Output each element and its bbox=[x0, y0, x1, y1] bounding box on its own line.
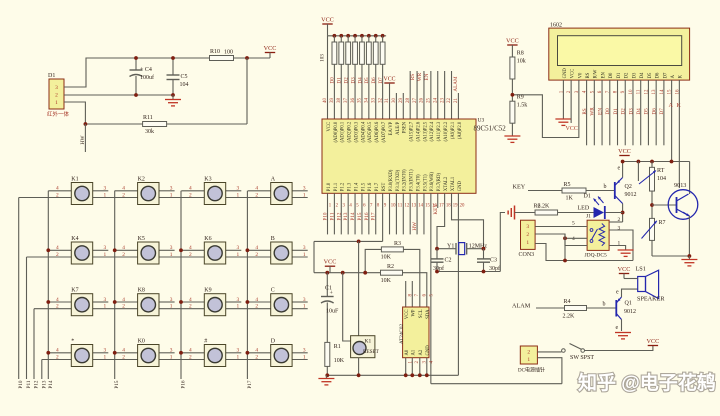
wire U2 pin 4 bbox=[426, 358, 428, 376]
svg-text:(A15)P2.7: (A15)P2.7 bbox=[410, 121, 415, 141]
wire D1 pin1 to R11 and HW bbox=[64, 102, 143, 124]
svg-text:R9: R9 bbox=[517, 95, 524, 101]
svg-text:VCC: VCC bbox=[324, 259, 337, 266]
svg-text:14: 14 bbox=[418, 204, 423, 209]
svg-text:3: 3 bbox=[618, 226, 621, 232]
wire R5 to Q2 base bbox=[586, 190, 615, 192]
wire Q2 emitter to VCC rail bbox=[622, 162, 624, 178]
bottom ground bus bbox=[431, 383, 562, 385]
wire U2 pin 3 bbox=[419, 358, 421, 376]
wire key K0 top stubs bbox=[115, 352, 138, 354]
resistor R10 100 bbox=[210, 49, 234, 61]
wire K1 bottom to ground bus bbox=[358, 358, 360, 376]
wire base to 9013 bbox=[652, 204, 677, 206]
svg-text:17: 17 bbox=[439, 204, 444, 209]
svg-text:P15: P15 bbox=[114, 380, 120, 388]
svg-text:9012: 9012 bbox=[625, 192, 637, 198]
svg-text:A2: A2 bbox=[419, 349, 424, 355]
svg-text:R2: R2 bbox=[387, 264, 394, 270]
svg-text:28: 28 bbox=[406, 98, 411, 104]
svg-text:A: A bbox=[671, 74, 676, 78]
svg-text:EN: EN bbox=[597, 108, 603, 115]
relay J1 JDQ-DC5 bbox=[585, 214, 610, 259]
svg-text:D1: D1 bbox=[584, 194, 591, 200]
svg-text:3: 3 bbox=[237, 348, 240, 354]
svg-text:SW SPST: SW SPST bbox=[570, 355, 594, 361]
svg-text:37: 37 bbox=[344, 98, 349, 104]
wire key K7 top stubs bbox=[48, 301, 71, 303]
svg-text:VCC: VCC bbox=[327, 122, 332, 132]
svg-text:1: 1 bbox=[55, 100, 58, 106]
svg-text:10k: 10k bbox=[517, 59, 526, 65]
svg-text:(AD4)P0.4: (AD4)P0.4 bbox=[361, 121, 366, 142]
wire LCD pin 4 bbox=[586, 80, 588, 145]
svg-text:ALAM: ALAM bbox=[453, 76, 459, 92]
svg-text:36: 36 bbox=[351, 98, 356, 104]
wire LED to Q2 collector line bbox=[606, 212, 623, 214]
svg-text:LS1: LS1 bbox=[636, 266, 646, 273]
resistor pack RP 103 bbox=[319, 54, 325, 62]
svg-text:CON3: CON3 bbox=[519, 252, 535, 258]
pushbutton K5 bbox=[122, 236, 173, 264]
speaker LS1 bbox=[636, 266, 666, 303]
svg-text:EN: EN bbox=[601, 72, 606, 79]
svg-text:D1: D1 bbox=[337, 77, 343, 84]
svg-text:9013: 9013 bbox=[674, 182, 686, 189]
IC U3 89C51/C52 body bbox=[322, 118, 506, 194]
ground relay bbox=[618, 249, 634, 251]
wire HW stub bbox=[84, 124, 86, 152]
wire VCC node down to R11 bbox=[246, 58, 248, 124]
wire vertical 565 to bus bbox=[564, 234, 566, 261]
svg-text:3: 3 bbox=[526, 224, 529, 230]
wire net RS pin28 bbox=[409, 71, 411, 119]
svg-text:(AD0)P0.0: (AD0)P0.0 bbox=[334, 121, 339, 142]
svg-text:26: 26 bbox=[420, 98, 425, 104]
svg-text:1: 1 bbox=[104, 304, 107, 310]
svg-text:*: * bbox=[71, 339, 74, 345]
connector J2 DC power bbox=[518, 346, 545, 374]
svg-text:RS: RS bbox=[586, 72, 591, 78]
svg-text:4: 4 bbox=[255, 186, 258, 192]
svg-text:R/W: R/W bbox=[594, 69, 599, 78]
wire U3 pin 5 net P14 bbox=[354, 193, 356, 234]
wire D1 pin3 to top rail bbox=[64, 58, 136, 87]
svg-text:D5: D5 bbox=[364, 77, 370, 84]
svg-text:D5: D5 bbox=[644, 108, 650, 115]
svg-text:SCL: SCL bbox=[419, 309, 424, 318]
transistor Q1 9012 bbox=[616, 290, 637, 332]
power VCC reset bbox=[324, 259, 337, 273]
svg-text:2.2K: 2.2K bbox=[538, 204, 551, 210]
pushbutton K6 bbox=[189, 236, 240, 264]
node junction bbox=[246, 351, 250, 355]
svg-text:12: 12 bbox=[404, 204, 409, 209]
LED D1 bbox=[578, 194, 605, 220]
crystal Y1 12MHz bbox=[437, 243, 487, 255]
svg-text:2: 2 bbox=[527, 350, 530, 356]
wire Q1 collector to ground bbox=[621, 320, 623, 332]
svg-text:P10: P10 bbox=[323, 212, 329, 220]
svg-text:1: 1 bbox=[303, 304, 306, 310]
capacitor C2 30pf bbox=[431, 249, 452, 272]
svg-text:EA/VP: EA/VP bbox=[389, 121, 394, 135]
svg-text:2: 2 bbox=[255, 252, 258, 258]
resistor R3 10K bbox=[363, 241, 403, 275]
wire key K5 top stubs bbox=[115, 249, 138, 251]
svg-text:D0: D0 bbox=[609, 72, 614, 78]
wire RST left drop bbox=[313, 241, 315, 272]
svg-text:P16: P16 bbox=[364, 212, 370, 220]
svg-text:D1: D1 bbox=[613, 108, 619, 115]
switch SW SPST bbox=[562, 344, 595, 362]
svg-text:15: 15 bbox=[425, 204, 430, 209]
IC U2 AT24C02 bbox=[399, 281, 429, 358]
svg-text:4: 4 bbox=[56, 297, 59, 303]
node junction bbox=[84, 122, 88, 126]
pin40 VCC wire bbox=[327, 36, 329, 119]
svg-text:RS: RS bbox=[582, 108, 588, 114]
svg-text:(A13)P2.5: (A13)P2.5 bbox=[423, 121, 428, 141]
svg-text:K4: K4 bbox=[71, 236, 78, 242]
svg-text:VCC: VCC bbox=[571, 69, 576, 79]
node junction C1 top bbox=[325, 271, 329, 275]
node junction bbox=[113, 351, 117, 355]
wire keypad row 2 line bbox=[27, 256, 308, 258]
svg-text:V0: V0 bbox=[578, 72, 583, 78]
wire XTAL1 pin19 to crystal bbox=[452, 193, 484, 248]
svg-text:C: C bbox=[271, 288, 275, 294]
svg-text:D3: D3 bbox=[632, 72, 637, 78]
pushbutton K9 bbox=[189, 288, 240, 316]
svg-text:2.2K: 2.2K bbox=[563, 314, 576, 320]
wire LCD pin 10 bbox=[632, 80, 634, 145]
wire VCC node line bbox=[314, 272, 381, 274]
node junction LED tee bbox=[621, 211, 625, 215]
svg-text:e: e bbox=[616, 290, 619, 296]
svg-text:ALE/P: ALE/P bbox=[396, 121, 401, 134]
wire R2 to SDA bbox=[403, 273, 427, 307]
svg-text:(AD7)P0.7: (AD7)P0.7 bbox=[382, 121, 387, 142]
svg-text:P3.7(RD): P3.7(RD) bbox=[437, 173, 442, 192]
ground bus bbox=[326, 374, 458, 376]
wire keypad row 1 line bbox=[19, 197, 308, 199]
wire LCD pin 14 bbox=[663, 80, 665, 145]
svg-text:P3.3(INT1): P3.3(INT1) bbox=[410, 169, 415, 191]
svg-text:1: 1 bbox=[170, 252, 173, 258]
svg-text:C5: C5 bbox=[181, 74, 188, 80]
svg-text:4: 4 bbox=[189, 297, 192, 303]
resistor R9 1.5k bbox=[510, 95, 527, 124]
svg-text:4: 4 bbox=[122, 297, 125, 303]
svg-text:PSEN: PSEN bbox=[403, 121, 408, 133]
svg-text:3: 3 bbox=[237, 245, 240, 251]
svg-text:A0: A0 bbox=[405, 349, 410, 355]
resistor RT 104 (preset) bbox=[639, 162, 666, 192]
svg-text:31: 31 bbox=[385, 98, 390, 104]
svg-text:10uF: 10uF bbox=[326, 309, 339, 315]
svg-text:2: 2 bbox=[122, 252, 125, 258]
svg-text:2: 2 bbox=[122, 304, 125, 310]
svg-text:P12: P12 bbox=[34, 380, 40, 388]
svg-text:D3: D3 bbox=[628, 108, 634, 115]
svg-text:K3: K3 bbox=[204, 177, 211, 183]
svg-text:(AD6)P0.6: (AD6)P0.6 bbox=[375, 121, 380, 142]
svg-text:10K: 10K bbox=[334, 358, 345, 364]
capacitor C1 10uF electrolytic bbox=[321, 273, 339, 343]
svg-text:D4: D4 bbox=[636, 108, 642, 115]
ground symbol reset bbox=[318, 375, 334, 385]
wire CON3 pin3 to relay pin5 bbox=[535, 226, 587, 228]
wire emitter node bbox=[652, 255, 689, 257]
pushbutton K3 bbox=[189, 177, 240, 205]
svg-text:SDA: SDA bbox=[426, 309, 431, 319]
wire RT to 9013 base node bbox=[651, 191, 653, 218]
resistor RP element 3 (net D2) bbox=[346, 34, 351, 119]
svg-text:D: D bbox=[271, 339, 276, 345]
svg-text:3: 3 bbox=[170, 348, 173, 354]
svg-text:P1.5: P1.5 bbox=[361, 182, 366, 191]
wire net EN pin26 bbox=[423, 71, 425, 119]
svg-text:K7: K7 bbox=[71, 288, 78, 294]
svg-text:2: 2 bbox=[56, 304, 59, 310]
resistor RP element 1 (net D0) bbox=[332, 34, 337, 119]
svg-text:(AD5)P0.5: (AD5)P0.5 bbox=[368, 121, 373, 142]
wire R8 to R9 bbox=[511, 79, 513, 101]
svg-text:4: 4 bbox=[122, 348, 125, 354]
wire net ALAM pin22 bbox=[451, 71, 453, 119]
svg-text:HW: HW bbox=[412, 222, 418, 231]
svg-text:P1.7: P1.7 bbox=[375, 182, 380, 191]
svg-text:30k: 30k bbox=[145, 129, 154, 135]
wire LCD V0 pin3 to R9 bbox=[512, 80, 578, 137]
wire keypad row 4 bus drop P13 bbox=[41, 360, 43, 380]
svg-text:3: 3 bbox=[104, 186, 107, 192]
node junction bbox=[688, 254, 692, 258]
wire keypad row 3 line bbox=[34, 308, 308, 310]
node junction C4 bottom bbox=[134, 93, 138, 97]
ground sideways R6 bbox=[514, 206, 516, 220]
svg-text:11: 11 bbox=[398, 204, 403, 209]
svg-text:VCC: VCC bbox=[384, 77, 396, 83]
svg-text:1: 1 bbox=[526, 240, 529, 246]
svg-text:4: 4 bbox=[56, 245, 59, 251]
svg-text:21: 21 bbox=[454, 98, 459, 104]
svg-text:1: 1 bbox=[303, 252, 306, 258]
svg-text:D7: D7 bbox=[659, 108, 665, 115]
node junction A wire bbox=[670, 160, 674, 164]
svg-text:(AD1)P0.1: (AD1)P0.1 bbox=[341, 121, 346, 142]
svg-text:22: 22 bbox=[447, 98, 452, 104]
svg-text:ALAM: ALAM bbox=[512, 303, 531, 310]
wire net WR pin27 bbox=[416, 71, 418, 119]
wire net KEY pin16 long drop bbox=[430, 193, 432, 383]
svg-text:e: e bbox=[618, 166, 621, 172]
svg-text:D6: D6 bbox=[371, 77, 377, 84]
node junction bbox=[418, 373, 422, 377]
svg-text:4: 4 bbox=[572, 236, 575, 242]
svg-text:1: 1 bbox=[170, 304, 173, 310]
svg-text:40: 40 bbox=[323, 98, 328, 104]
svg-text:3: 3 bbox=[170, 245, 173, 251]
svg-text:VCC: VCC bbox=[321, 17, 334, 24]
wire R3 to SCL bbox=[403, 249, 419, 307]
pushbutton K0 bbox=[122, 339, 173, 367]
node junction RT top bbox=[650, 160, 654, 164]
wire RST pin9 down bbox=[382, 193, 384, 241]
wire keypad row 3 bus drop P12 bbox=[33, 309, 35, 379]
pushbutton # bbox=[189, 339, 240, 367]
svg-text:C3: C3 bbox=[490, 258, 497, 264]
wire U3 pin 14 stub bbox=[416, 193, 418, 234]
svg-text:K1: K1 bbox=[71, 177, 78, 183]
svg-text:(A9)P2.1: (A9)P2.1 bbox=[451, 121, 456, 139]
svg-text:VCC: VCC bbox=[506, 38, 519, 45]
node junction bbox=[179, 351, 183, 355]
wire U2 pin 1 bbox=[405, 358, 407, 376]
wire GND pin20 down to ground bus bbox=[457, 193, 459, 375]
svg-text:P1.4: P1.4 bbox=[354, 182, 359, 191]
pushbutton K2 bbox=[122, 177, 173, 205]
svg-text:U3: U3 bbox=[478, 118, 485, 124]
node junction bbox=[179, 300, 183, 304]
wire U3 pin 12 stub bbox=[402, 193, 404, 234]
node junction R9 tap bbox=[511, 93, 515, 97]
svg-text:23: 23 bbox=[440, 98, 445, 104]
wire pin17 stub bbox=[437, 193, 439, 208]
svg-text:1: 1 bbox=[104, 252, 107, 258]
svg-text:P14: P14 bbox=[48, 380, 54, 388]
svg-text:VCC: VCC bbox=[618, 148, 631, 155]
wire U3 pin 4 net P13 bbox=[347, 193, 349, 234]
svg-text:13: 13 bbox=[411, 204, 416, 209]
node junction bbox=[246, 248, 250, 252]
node junction bbox=[482, 247, 486, 251]
pushbutton K8 bbox=[122, 288, 173, 316]
wire keypad row 4 line bbox=[42, 359, 308, 361]
ground sideways crystal bbox=[514, 206, 516, 220]
wire LCD pin 6 bbox=[601, 80, 603, 145]
svg-text:3: 3 bbox=[237, 186, 240, 192]
svg-text:KEY: KEY bbox=[513, 184, 526, 191]
svg-text:Q1: Q1 bbox=[625, 301, 632, 307]
wire 9013 emitter down bbox=[688, 216, 690, 256]
wire U3 pin 8 net P17 bbox=[375, 193, 377, 234]
wire relay pin3 drop bbox=[609, 230, 633, 261]
VCC rail right bbox=[623, 161, 690, 163]
resistor RP element 6 (net D5) bbox=[366, 34, 371, 119]
svg-text:P13: P13 bbox=[343, 212, 349, 220]
svg-text:4: 4 bbox=[189, 245, 192, 251]
svg-text:P1.6: P1.6 bbox=[368, 182, 373, 191]
svg-text:1K: 1K bbox=[566, 196, 574, 202]
svg-text:32: 32 bbox=[378, 98, 383, 104]
ground R9 bbox=[504, 135, 520, 137]
resistor RP element 7 (net D6) bbox=[373, 34, 378, 119]
svg-text:P1.1: P1.1 bbox=[334, 182, 339, 191]
wire LCD pin 12 bbox=[647, 80, 649, 145]
pin 29 stub bbox=[402, 93, 404, 119]
wire key K1 top stubs bbox=[48, 190, 71, 192]
svg-text:K1: K1 bbox=[365, 339, 372, 345]
power VCC rail bbox=[618, 148, 631, 156]
svg-text:P16: P16 bbox=[181, 380, 187, 388]
wire R1 to ground bus bbox=[326, 367, 328, 376]
svg-text:4: 4 bbox=[56, 186, 59, 192]
svg-text:P3.1(TXD): P3.1(TXD) bbox=[396, 170, 401, 192]
wire U3 pin 3 net P12 bbox=[340, 193, 342, 234]
svg-text:A: A bbox=[669, 103, 674, 109]
pushbutton * bbox=[56, 339, 107, 367]
wire keypad column line P16 bbox=[180, 191, 182, 379]
svg-text:P1.2: P1.2 bbox=[341, 182, 346, 191]
svg-text:2: 2 bbox=[122, 192, 125, 198]
svg-text:2: 2 bbox=[56, 192, 59, 198]
svg-text:HW: HW bbox=[80, 135, 86, 145]
resistor R4 2.2K bbox=[563, 299, 587, 320]
svg-text:3: 3 bbox=[104, 348, 107, 354]
node junction bbox=[357, 373, 361, 377]
svg-text:D5: D5 bbox=[648, 72, 653, 78]
power VCC switch bbox=[648, 345, 658, 347]
svg-text:P10: P10 bbox=[18, 380, 24, 388]
node junction bbox=[410, 373, 414, 377]
svg-text:2: 2 bbox=[526, 232, 529, 238]
svg-text:3: 3 bbox=[303, 348, 306, 354]
svg-text:2: 2 bbox=[55, 93, 58, 99]
wire U2 pin 2 bbox=[411, 358, 413, 376]
svg-text:b: b bbox=[604, 184, 607, 190]
svg-text:10K: 10K bbox=[381, 278, 392, 284]
wire key B top stubs bbox=[248, 249, 271, 251]
node junction bbox=[563, 259, 567, 263]
svg-text:2: 2 bbox=[255, 192, 258, 198]
svg-text:2: 2 bbox=[189, 252, 192, 258]
wire KEY to R5 bbox=[528, 190, 562, 192]
svg-text:2: 2 bbox=[255, 304, 258, 310]
svg-text:P15: P15 bbox=[357, 212, 363, 220]
wire CON3 pin1 to bottom bbox=[535, 244, 633, 261]
power VCC R8 bbox=[506, 38, 519, 58]
svg-text:WR: WR bbox=[590, 107, 596, 116]
svg-text:P3.5(T1): P3.5(T1) bbox=[423, 174, 428, 191]
LCD module 1602 bbox=[549, 23, 690, 81]
svg-text:VCC: VCC bbox=[264, 45, 277, 52]
wire rail corner to 9013 collector bbox=[689, 162, 691, 195]
wire LCD pin 5 bbox=[593, 80, 595, 145]
svg-text:4: 4 bbox=[189, 348, 192, 354]
pushbutton K1 RESET bbox=[351, 241, 380, 357]
wire top rail C4 to R10 bbox=[136, 57, 210, 59]
svg-text:GND: GND bbox=[426, 345, 431, 356]
svg-text:2: 2 bbox=[56, 252, 59, 258]
wire CON3 pin2 to relay pin4 bbox=[535, 234, 587, 246]
svg-text:100: 100 bbox=[224, 50, 233, 56]
wire R9 to ground bbox=[511, 123, 513, 136]
wire keypad column line P15 bbox=[114, 191, 116, 379]
svg-text:24: 24 bbox=[433, 98, 438, 104]
wire DC pin2 to switch bbox=[537, 351, 561, 353]
resistor R2 10K bbox=[381, 264, 403, 284]
svg-text:P3.0(RXD): P3.0(RXD) bbox=[389, 169, 394, 191]
svg-text:P3.6(WR): P3.6(WR) bbox=[430, 172, 435, 192]
pushbutton A bbox=[255, 177, 306, 205]
node junction bbox=[179, 248, 183, 252]
ground 9013 bbox=[681, 256, 697, 266]
svg-text:1: 1 bbox=[527, 357, 530, 363]
svg-text:K9: K9 bbox=[204, 288, 211, 294]
svg-text:红外一体: 红外一体 bbox=[47, 110, 70, 118]
